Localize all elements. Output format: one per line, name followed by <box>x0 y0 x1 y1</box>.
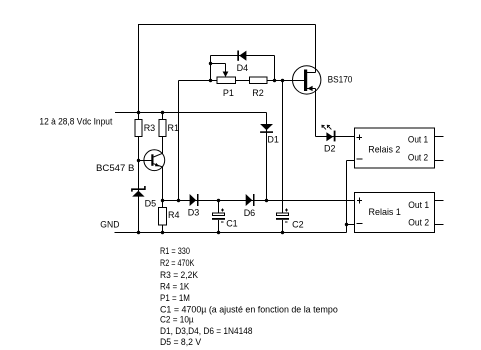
svg-text:BS170: BS170 <box>328 75 353 85</box>
svg-text:D4: D4 <box>237 63 249 73</box>
svg-text:R3: R3 <box>144 123 156 133</box>
svg-text:C2: C2 <box>292 219 304 229</box>
svg-text:BC547 B: BC547 B <box>96 163 134 173</box>
svg-text:P1: P1 <box>223 88 234 98</box>
svg-text:Out 1: Out 1 <box>408 200 429 210</box>
svg-text:D1, D3,D4, D6 = 1N4148: D1, D3,D4, D6 = 1N4148 <box>160 326 253 336</box>
svg-text:D1: D1 <box>267 135 279 145</box>
svg-text:R1: R1 <box>168 123 180 133</box>
svg-text:D5: D5 <box>145 199 157 209</box>
svg-text:D5 = 8,2 V: D5 = 8,2 V <box>160 337 201 347</box>
svg-text:Out 2: Out 2 <box>408 153 428 163</box>
svg-text:C2 = 10µ: C2 = 10µ <box>160 315 194 325</box>
svg-text:C1 = 4700µ (a ajusté en foncti: C1 = 4700µ (a ajusté en fonction de la t… <box>160 304 338 314</box>
svg-text:Relais 2: Relais 2 <box>368 144 400 154</box>
svg-text:Out 1: Out 1 <box>408 135 428 145</box>
svg-text:R4 = 1K: R4 = 1K <box>160 282 189 292</box>
svg-text:Out 2: Out 2 <box>408 218 429 228</box>
svg-text:D2: D2 <box>324 144 336 154</box>
svg-text:P1 = 1M: P1 = 1M <box>160 293 190 303</box>
svg-text:R2 = 470K: R2 = 470K <box>160 258 194 268</box>
svg-text:R4: R4 <box>168 210 180 220</box>
svg-text:12 à 28,8 Vdc Input: 12 à 28,8 Vdc Input <box>39 116 112 126</box>
svg-text:R2: R2 <box>252 88 264 98</box>
svg-text:D3: D3 <box>188 208 200 218</box>
svg-text:R3 = 2,2K: R3 = 2,2K <box>160 270 198 280</box>
svg-text:GND: GND <box>100 220 120 230</box>
svg-text:D6: D6 <box>244 208 256 218</box>
svg-text:C1: C1 <box>226 219 238 229</box>
svg-text:R1 = 330: R1 = 330 <box>160 246 190 256</box>
svg-text:Relais 1: Relais 1 <box>369 207 401 217</box>
